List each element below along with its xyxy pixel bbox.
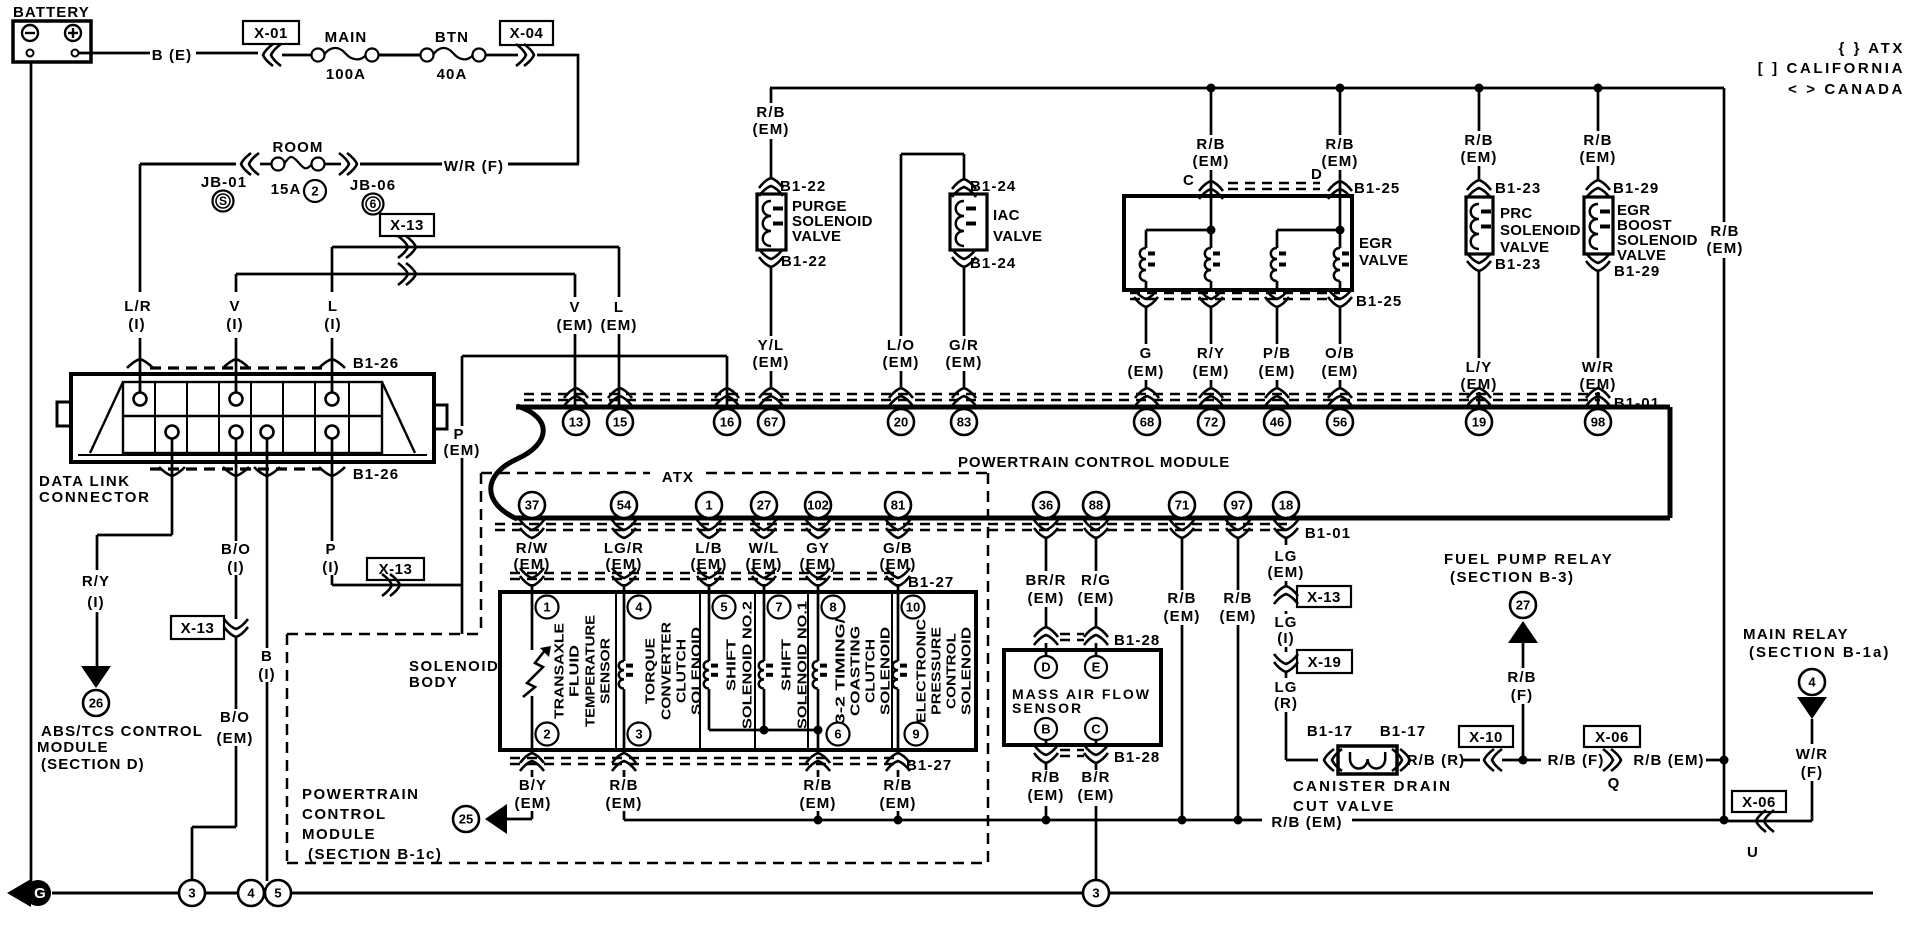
svg-text:JB-01: JB-01 [201,174,247,191]
svg-text:(EM): (EM) [1322,363,1359,380]
svg-text:4: 4 [1808,675,1816,690]
svg-text:B1-28: B1-28 [1114,632,1160,649]
svg-text:26: 26 [89,696,103,711]
svg-text:SOLENOID: SOLENOID [689,627,704,715]
svg-text:(EM): (EM) [800,556,837,573]
svg-text:(EM): (EM) [601,317,638,334]
svg-text:B: B [1041,722,1050,737]
svg-text:83: 83 [957,415,971,430]
svg-text:ELECTRONIC: ELECTRONIC [914,618,929,723]
svg-text:36: 36 [1039,498,1053,513]
svg-text:6: 6 [370,197,377,211]
svg-text:(EM): (EM) [880,556,917,573]
svg-text:P/B: P/B [1263,345,1291,362]
svg-text:LG: LG [1274,614,1297,631]
svg-text:3: 3 [188,886,195,901]
svg-text:TRANSAXLE: TRANSAXLE [552,623,567,719]
svg-text:CONNECTOR: CONNECTOR [39,489,151,506]
svg-text:Y/L: Y/L [758,337,785,354]
svg-text:X-13: X-13 [390,217,424,234]
svg-text:SOLENOID: SOLENOID [409,658,499,675]
svg-text:LG: LG [1274,548,1297,565]
svg-text:VALVE: VALVE [993,228,1042,245]
svg-text:B1-25: B1-25 [1354,180,1400,197]
svg-text:VALVE: VALVE [792,228,841,245]
svg-text:ATX: ATX [662,469,694,486]
svg-text:(EM): (EM) [514,556,551,573]
svg-text:(I): (I) [258,666,275,683]
svg-text:CANISTER DRAIN: CANISTER DRAIN [1293,778,1452,795]
svg-text:25: 25 [459,812,473,827]
svg-text:X-06: X-06 [1742,794,1776,811]
svg-text:72: 72 [1204,415,1218,430]
svg-text:(R): (R) [1274,695,1298,712]
svg-text:(EM): (EM) [1322,153,1359,170]
svg-text:L/B: L/B [695,540,722,557]
svg-text:{ } ATX: { } ATX [1838,40,1905,57]
svg-text:(EM): (EM) [800,795,837,812]
svg-text:SOLENOID: SOLENOID [878,627,893,715]
svg-text:9: 9 [912,727,919,742]
svg-text:MAIN: MAIN [325,29,368,46]
svg-text:GY: GY [806,540,830,557]
svg-text:W/L: W/L [749,540,780,557]
svg-text:SENSOR: SENSOR [598,637,613,704]
svg-text:97: 97 [1231,498,1245,513]
svg-text:CONTROL: CONTROL [302,806,387,823]
svg-text:BR/R: BR/R [1025,572,1066,589]
svg-text:LG/R: LG/R [604,540,644,557]
svg-text:[ ] CALIFORNIA: [ ] CALIFORNIA [1758,60,1905,77]
svg-text:X-04: X-04 [510,25,544,42]
svg-text:R/B (F): R/B (F) [1548,752,1605,769]
svg-text:5: 5 [274,886,281,901]
svg-text:19: 19 [1472,415,1486,430]
svg-text:SOLENOID: SOLENOID [959,627,974,715]
svg-text:1: 1 [705,498,712,513]
svg-text:L: L [328,298,338,315]
svg-text:R/B: R/B [1196,136,1225,153]
svg-text:(I): (I) [128,316,145,333]
svg-text:15A: 15A [271,181,302,198]
svg-text:G: G [1140,345,1153,362]
svg-text:CONTROL: CONTROL [944,633,959,709]
svg-text:(I): (I) [1277,630,1294,647]
svg-text:(I): (I) [226,316,243,333]
svg-text:CLUTCH: CLUTCH [674,639,689,703]
svg-text:3: 3 [635,727,642,742]
svg-text:B1-27: B1-27 [908,574,954,591]
svg-text:W/R (F): W/R (F) [444,158,504,175]
svg-text:(F): (F) [1801,764,1823,781]
svg-text:71: 71 [1175,498,1189,513]
svg-text:BODY: BODY [409,674,458,691]
svg-text:VALVE: VALVE [1617,247,1666,264]
svg-text:R/B: R/B [609,777,638,794]
svg-text:BTN: BTN [435,29,469,46]
svg-text:D: D [1311,166,1323,183]
svg-text:P: P [453,426,464,443]
svg-text:B1-23: B1-23 [1495,180,1541,197]
svg-text:B1-29: B1-29 [1613,180,1659,197]
svg-text:R/B: R/B [756,104,785,121]
svg-text:(EM): (EM) [1028,787,1065,804]
svg-text:R/G: R/G [1081,572,1111,589]
svg-text:TORQUE: TORQUE [643,638,658,704]
svg-text:3: 3 [1092,886,1099,901]
svg-text:(EM): (EM) [1268,564,1305,581]
svg-text:2: 2 [543,727,550,742]
svg-text:R/B: R/B [1583,132,1612,149]
svg-text:40A: 40A [437,66,468,83]
svg-text:(EM): (EM) [1707,240,1744,257]
svg-text:X-19: X-19 [1308,654,1342,671]
svg-text:ROOM: ROOM [272,139,323,156]
svg-text:27: 27 [1516,598,1530,613]
svg-text:(EM): (EM) [946,354,983,371]
svg-text:R/B (EM): R/B (EM) [1271,814,1342,831]
svg-text:15: 15 [613,415,627,430]
svg-text:X-06: X-06 [1595,729,1629,746]
svg-text:(EM): (EM) [557,317,594,334]
svg-text:56: 56 [1333,415,1347,430]
svg-text:S: S [219,194,227,208]
svg-text:4: 4 [635,600,643,615]
svg-text:X-01: X-01 [254,25,288,42]
svg-text:R/B: R/B [1464,132,1493,149]
svg-text:B/O: B/O [221,541,251,558]
svg-text:IAC: IAC [993,207,1020,224]
svg-text:3-2 TIMING/: 3-2 TIMING/ [833,617,848,724]
svg-text:(I): (I) [322,559,339,576]
svg-text:G/B: G/B [883,540,913,557]
svg-text:X-10: X-10 [1469,729,1503,746]
svg-text:JB-06: JB-06 [350,177,396,194]
svg-text:(I): (I) [324,316,341,333]
svg-text:20: 20 [894,415,908,430]
svg-text:X-13: X-13 [181,620,215,637]
svg-text:100A: 100A [326,66,366,83]
svg-text:(EM): (EM) [753,121,790,138]
svg-text:(EM): (EM) [606,556,643,573]
svg-text:B1-26: B1-26 [353,355,399,372]
svg-text:4: 4 [247,886,255,901]
svg-text:R/B: R/B [1031,769,1060,786]
svg-text:EGR: EGR [1359,235,1392,252]
svg-text:67: 67 [764,415,778,430]
svg-text:(EM): (EM) [1461,149,1498,166]
svg-text:(SECTION B-3): (SECTION B-3) [1450,569,1575,586]
svg-text:18: 18 [1279,498,1293,513]
svg-text:(SECTION D): (SECTION D) [41,756,145,773]
svg-text:SOLENOID: SOLENOID [1500,222,1581,239]
svg-text:(EM): (EM) [444,442,481,459]
svg-text:B1-01: B1-01 [1614,395,1660,412]
svg-text:R/B: R/B [883,777,912,794]
svg-text:(EM): (EM) [746,556,783,573]
svg-text:MODULE: MODULE [302,826,376,843]
svg-text:COASTING: COASTING [848,626,863,716]
svg-text:B1-26: B1-26 [353,466,399,483]
svg-text:SOLENOID NO.1: SOLENOID NO.1 [795,601,810,729]
svg-text:(EM): (EM) [606,795,643,812]
svg-text:W/R: W/R [1582,359,1614,376]
svg-text:L: L [614,299,624,316]
svg-text:(EM): (EM) [1461,376,1498,393]
svg-text:B1-17: B1-17 [1307,723,1353,740]
svg-text:R/B (EM): R/B (EM) [1633,752,1704,769]
svg-text:VALVE: VALVE [1359,252,1408,269]
svg-text:(EM): (EM) [1220,608,1257,625]
svg-text:B1-23: B1-23 [1495,256,1541,273]
svg-text:B (E): B (E) [152,47,193,64]
svg-text:B1-17: B1-17 [1380,723,1426,740]
svg-text:(EM): (EM) [1259,363,1296,380]
svg-text:(SECTION B-1a): (SECTION B-1a) [1749,644,1890,661]
svg-text:68: 68 [1140,415,1154,430]
svg-text:B1-22: B1-22 [781,253,827,270]
svg-text:16: 16 [720,415,734,430]
svg-text:B1-28: B1-28 [1114,749,1160,766]
svg-text:B1-01: B1-01 [1305,525,1351,542]
svg-text:(EM): (EM) [1193,153,1230,170]
svg-text:13: 13 [569,415,583,430]
svg-text:X-13: X-13 [379,561,413,578]
svg-text:54: 54 [617,498,632,513]
svg-text:O/B: O/B [1325,345,1355,362]
svg-text:27: 27 [757,498,771,513]
svg-text:(I): (I) [227,559,244,576]
svg-text:SENSOR: SENSOR [1012,700,1083,716]
svg-text:LG: LG [1274,679,1297,696]
svg-text:81: 81 [891,498,905,513]
svg-text:CONVERTER: CONVERTER [659,621,674,720]
svg-text:C: C [1091,722,1101,737]
svg-text:R/W: R/W [516,540,548,557]
svg-text:CLUTCH: CLUTCH [863,639,878,703]
svg-text:B/O: B/O [220,709,250,726]
svg-text:(EM): (EM) [753,354,790,371]
svg-text:DATA LINK: DATA LINK [39,473,131,490]
svg-text:(EM): (EM) [883,354,920,371]
svg-text:G/R: G/R [949,337,979,354]
svg-text:(EM): (EM) [1580,149,1617,166]
svg-text:U: U [1747,844,1759,861]
svg-text:(EM): (EM) [1078,590,1115,607]
svg-text:B1-25: B1-25 [1356,293,1402,310]
svg-text:6: 6 [834,727,841,742]
svg-text:(EM): (EM) [1078,787,1115,804]
svg-text:10: 10 [906,600,920,615]
svg-text:BATTERY: BATTERY [13,4,90,21]
svg-text:FLUID: FLUID [567,645,582,697]
svg-text:L/O: L/O [887,337,915,354]
svg-text:B1-27: B1-27 [906,757,952,774]
svg-text:PRESSURE: PRESSURE [929,627,944,715]
svg-text:B/R: B/R [1081,769,1110,786]
svg-text:C: C [1183,172,1195,189]
svg-text:102: 102 [807,498,829,513]
svg-text:MAIN RELAY: MAIN RELAY [1743,626,1849,643]
svg-text:7: 7 [775,600,782,615]
svg-text:R/B: R/B [1710,223,1739,240]
svg-text:TEMPERATURE: TEMPERATURE [583,615,598,727]
svg-text:X-13: X-13 [1307,589,1341,606]
svg-text:(EM): (EM) [1128,363,1165,380]
svg-text:R/Y: R/Y [1197,345,1225,362]
svg-text:E: E [1092,660,1101,675]
svg-text:R/B: R/B [1223,590,1252,607]
svg-text:1: 1 [543,600,550,615]
svg-text:CUT VALVE: CUT VALVE [1293,798,1396,815]
svg-text:88: 88 [1089,498,1103,513]
svg-text:FUEL PUMP RELAY: FUEL PUMP RELAY [1444,551,1614,568]
svg-text:(EM): (EM) [691,556,728,573]
svg-text:(EM): (EM) [1193,363,1230,380]
svg-text:SHIFT: SHIFT [724,639,739,691]
svg-text:(EM): (EM) [1028,590,1065,607]
svg-text:L/R: L/R [124,298,151,315]
svg-text:R/B: R/B [803,777,832,794]
svg-text:R/B: R/B [1507,669,1536,686]
svg-text:POWERTRAIN CONTROL MODULE: POWERTRAIN CONTROL MODULE [958,454,1230,471]
svg-text:D: D [1041,660,1050,675]
svg-text:8: 8 [829,600,836,615]
svg-text:SHIFT: SHIFT [779,639,794,691]
svg-text:SOLENOID NO.2: SOLENOID NO.2 [740,601,755,729]
svg-text:(EM): (EM) [1164,608,1201,625]
svg-text:V: V [569,299,580,316]
svg-text:PRC: PRC [1500,205,1533,222]
svg-text:V: V [229,298,240,315]
svg-text:2: 2 [311,184,318,199]
svg-text:B1-24: B1-24 [970,255,1016,272]
svg-text:R/Y: R/Y [82,573,110,590]
svg-text:MODULE: MODULE [37,739,109,756]
svg-text:B/Y: B/Y [519,777,547,794]
svg-text:P: P [325,541,336,558]
svg-text:(EM): (EM) [1580,376,1617,393]
svg-text:(EM): (EM) [515,795,552,812]
svg-text:R/B (R): R/B (R) [1407,752,1466,769]
svg-text:Q: Q [1608,775,1621,792]
svg-text:5: 5 [720,600,727,615]
svg-text:< > CANADA: < > CANADA [1788,81,1905,98]
svg-text:R/B: R/B [1167,590,1196,607]
svg-text:G: G [34,885,46,902]
svg-text:(I): (I) [87,594,104,611]
svg-text:(EM): (EM) [217,730,254,747]
svg-text:L/Y: L/Y [1466,359,1493,376]
svg-text:R/B: R/B [1325,136,1354,153]
svg-text:98: 98 [1591,415,1605,430]
svg-text:W/R: W/R [1796,746,1828,763]
svg-text:(F): (F) [1511,687,1533,704]
svg-text:POWERTRAIN: POWERTRAIN [302,786,420,803]
svg-text:(EM): (EM) [880,795,917,812]
svg-text:B1-29: B1-29 [1614,263,1660,280]
svg-text:B: B [261,648,273,665]
svg-text:46: 46 [1270,415,1284,430]
svg-text:(SECTION B-1c): (SECTION B-1c) [308,846,442,863]
svg-text:ABS/TCS CONTROL: ABS/TCS CONTROL [41,723,203,740]
svg-text:37: 37 [525,498,539,513]
svg-text:VALVE: VALVE [1500,239,1549,256]
